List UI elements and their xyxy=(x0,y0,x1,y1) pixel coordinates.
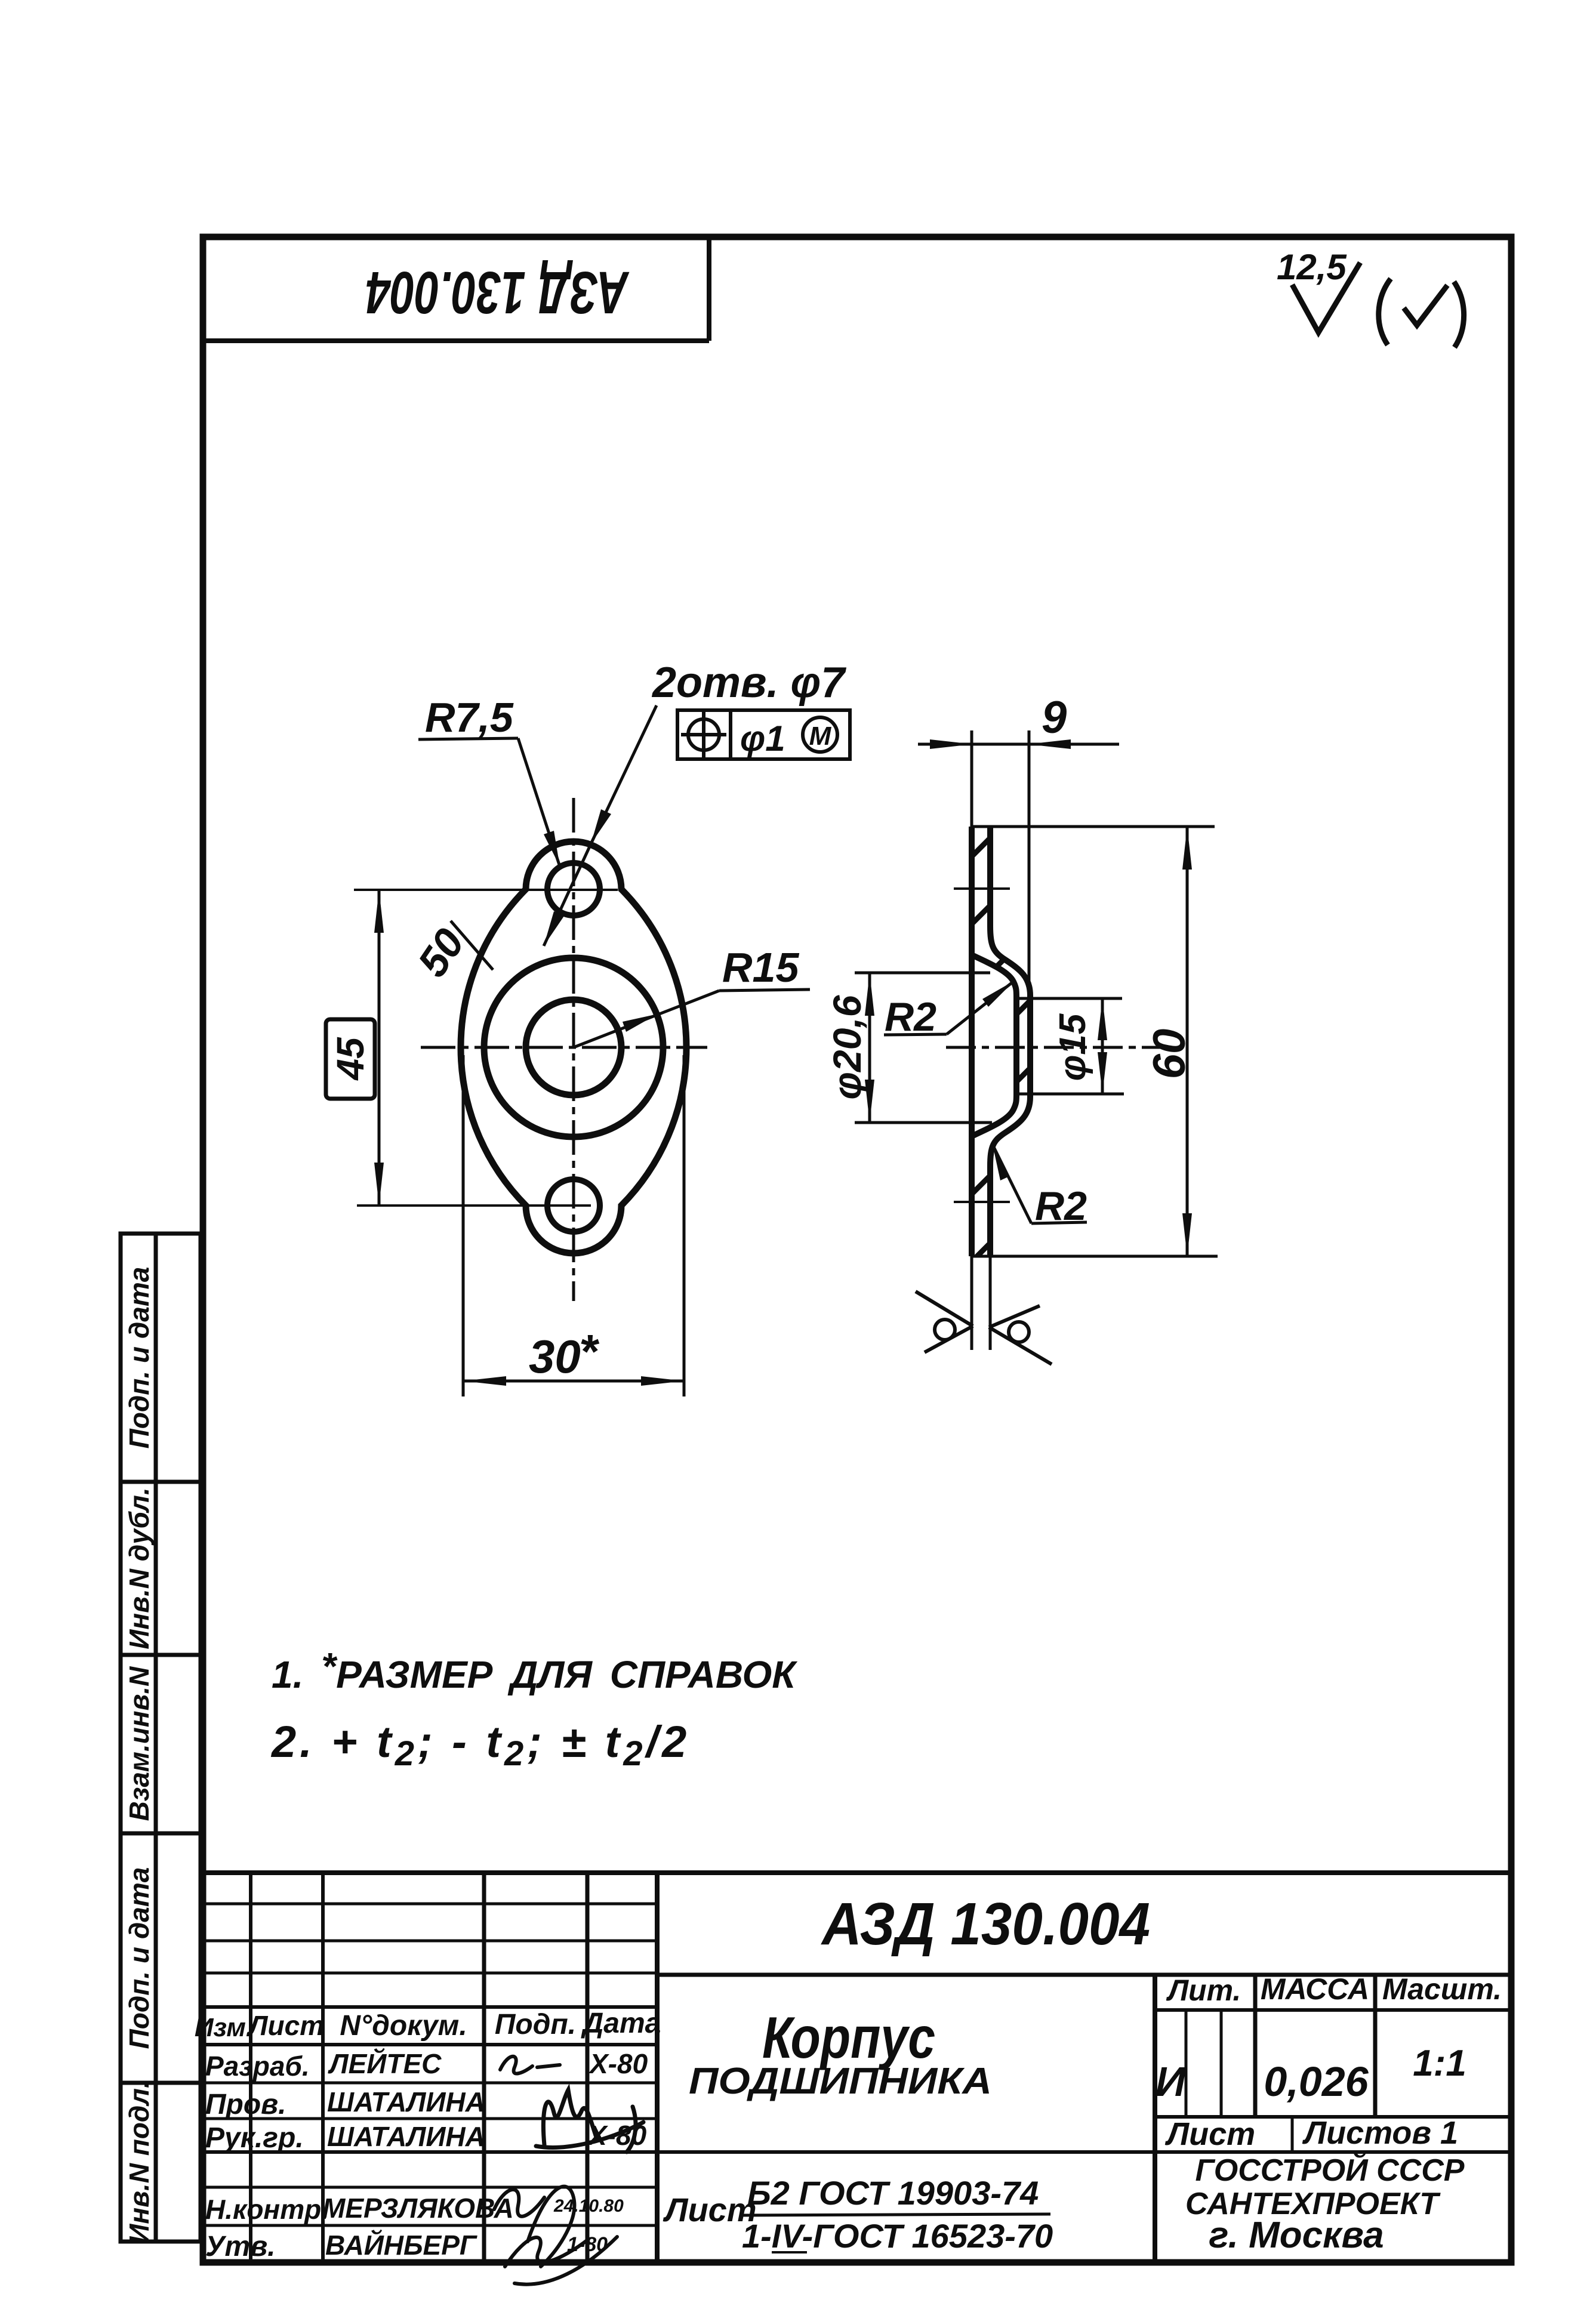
svg-text:Н.контр.: Н.контр. xyxy=(205,2194,329,2225)
svg-text:1:1: 1:1 xyxy=(1413,2043,1466,2084)
bottom hole center tick xyxy=(954,1201,1010,1203)
svg-text:45: 45 xyxy=(329,1037,372,1081)
svg-text:Лит.: Лит. xyxy=(1166,1974,1241,2007)
svg-text:Дата: Дата xyxy=(581,2008,661,2039)
plate right face continuation xyxy=(989,1256,992,1350)
svg-text:Рук.гр.: Рук.гр. xyxy=(205,2122,304,2154)
flange horizontal centerline xyxy=(421,1046,707,1049)
dimension 45 (boxed) xyxy=(326,890,384,1206)
svg-text:АЗД 130.004: АЗД 130.004 xyxy=(820,1891,1150,1957)
plate left face line xyxy=(969,827,975,1256)
section material hatch xyxy=(972,827,1030,1256)
svg-text:12,5: 12,5 xyxy=(1277,247,1347,287)
roughness mark 12,5 xyxy=(1277,247,1360,332)
dimension R2 upper xyxy=(884,981,1015,1040)
svg-text:г. Москва: г. Москва xyxy=(1209,2215,1384,2256)
svg-text:φ1: φ1 xyxy=(740,719,785,759)
position tolerance frame xyxy=(677,710,850,759)
roughness mark (v) xyxy=(1379,279,1464,347)
svg-text:R2: R2 xyxy=(885,994,936,1040)
boss cavity contour xyxy=(973,955,1016,1136)
dimension 9 xyxy=(918,692,1119,982)
dimension R7,5 xyxy=(418,694,560,867)
flange vertical centerline xyxy=(572,798,575,1301)
svg-text:*: * xyxy=(579,1325,600,1378)
svg-text:Подп. и дата: Подп. и дата xyxy=(124,1267,155,1449)
svg-text:60: 60 xyxy=(1144,1029,1195,1080)
dimension ф20,6 xyxy=(825,973,992,1123)
dimension 60 xyxy=(972,827,1218,1256)
svg-text:ЛЕЙТЕС: ЛЕЙТЕС xyxy=(328,2048,442,2079)
sheet edge mark right xyxy=(989,1306,1052,1364)
svg-text:30: 30 xyxy=(529,1330,581,1383)
signature Н.контр xyxy=(494,2187,574,2267)
dimension 2отв. ф7 leader xyxy=(544,659,846,946)
svg-text:Б2 ГОСТ 19903-74: Б2 ГОСТ 19903-74 xyxy=(747,2174,1039,2212)
svg-text:Взам.инв.N: Взам.инв.N xyxy=(124,1666,155,1821)
svg-text:Масшт.: Масшт. xyxy=(1382,1972,1502,2006)
signature Утв xyxy=(505,2237,617,2285)
top bolt hole xyxy=(547,863,600,915)
top hole center tick xyxy=(954,887,1010,890)
top hole centerline / 45 dim extension xyxy=(354,889,618,891)
central boss circle R15 xyxy=(484,958,663,1137)
svg-text:ПОДШИПНИКА: ПОДШИПНИКА xyxy=(689,2061,992,2102)
svg-text:2отв. φ7: 2отв. φ7 xyxy=(651,659,846,707)
top-left stamp box xyxy=(203,237,709,341)
svg-text:1-IV-ГОСТ 16523-70: 1-IV-ГОСТ 16523-70 xyxy=(742,2217,1053,2255)
svg-text:φ15: φ15 xyxy=(1052,1013,1093,1081)
svg-text:Листов 1: Листов 1 xyxy=(1302,2115,1458,2151)
svg-text:φ20,6: φ20,6 xyxy=(825,994,869,1099)
svg-text:24.10.80: 24.10.80 xyxy=(553,2196,624,2216)
left margin column strip xyxy=(121,1234,201,2242)
signature Пров/Рук.гр xyxy=(536,2090,643,2152)
svg-text:Подп.: Подп. xyxy=(495,2009,576,2040)
sheet edge mark left xyxy=(916,1291,973,1352)
svg-text:АЗД 130.004: АЗД 130.004 xyxy=(366,259,630,326)
svg-text:ГОССТРОЙ СССР: ГОССТРОЙ СССР xyxy=(1196,2152,1465,2188)
svg-text:Подп. и дата: Подп. и дата xyxy=(124,1867,155,2049)
svg-text:Инв.N дубл.: Инв.N дубл. xyxy=(124,1487,155,1649)
drawing frame border xyxy=(203,237,1511,2262)
svg-text:N°докум.: N°докум. xyxy=(340,2010,467,2042)
svg-text:М: М xyxy=(809,722,832,751)
dimension 50 (oblique) xyxy=(409,920,493,985)
material spec fraction bar xyxy=(740,2214,1050,2215)
bottom bolt hole xyxy=(547,1179,600,1232)
svg-text:Пров.: Пров. xyxy=(205,2089,286,2120)
svg-text:И: И xyxy=(1156,2058,1187,2105)
dimension R2 lower xyxy=(993,1145,1087,1229)
svg-text:Утв.: Утв. xyxy=(205,2231,276,2262)
svg-text:Изм.: Изм. xyxy=(195,2013,253,2042)
bottom hole centerline / 45 dim extension xyxy=(357,1204,591,1207)
flange outline xyxy=(461,841,686,1253)
svg-text:R7,5: R7,5 xyxy=(425,694,514,741)
svg-text:ШАТАЛИНА: ШАТАЛИНА xyxy=(327,2121,485,2152)
plate left face continuation xyxy=(970,1256,973,1350)
svg-text:9: 9 xyxy=(1042,692,1067,743)
central hole circle xyxy=(526,1000,621,1095)
svg-text:Лист: Лист xyxy=(247,2010,324,2041)
svg-text:Разраб.: Разраб. xyxy=(205,2051,310,2082)
svg-text:X-80: X-80 xyxy=(588,2048,648,2079)
svg-text:ВАЙНБЕРГ: ВАЙНБЕРГ xyxy=(325,2230,477,2261)
dimension 30* xyxy=(463,1055,684,1396)
svg-text:Лист: Лист xyxy=(1164,2116,1255,2152)
dimension R15 xyxy=(574,944,810,1047)
svg-text:ШАТАЛИНА: ШАТАЛИНА xyxy=(327,2086,485,2117)
svg-text:R15: R15 xyxy=(722,944,799,991)
svg-text:МЕРЗЛЯКОВА: МЕРЗЛЯКОВА xyxy=(322,2193,514,2224)
svg-text:МАССА: МАССА xyxy=(1261,1972,1369,2006)
signature Разраб xyxy=(500,2057,560,2074)
section horizontal centerline xyxy=(946,1046,1170,1049)
svg-text:Инв.N подл.: Инв.N подл. xyxy=(124,2080,155,2243)
svg-text:0,026: 0,026 xyxy=(1264,2058,1369,2105)
dimension ф15 xyxy=(1016,998,1124,1094)
plate right face and boss outer contour xyxy=(990,827,1030,1256)
